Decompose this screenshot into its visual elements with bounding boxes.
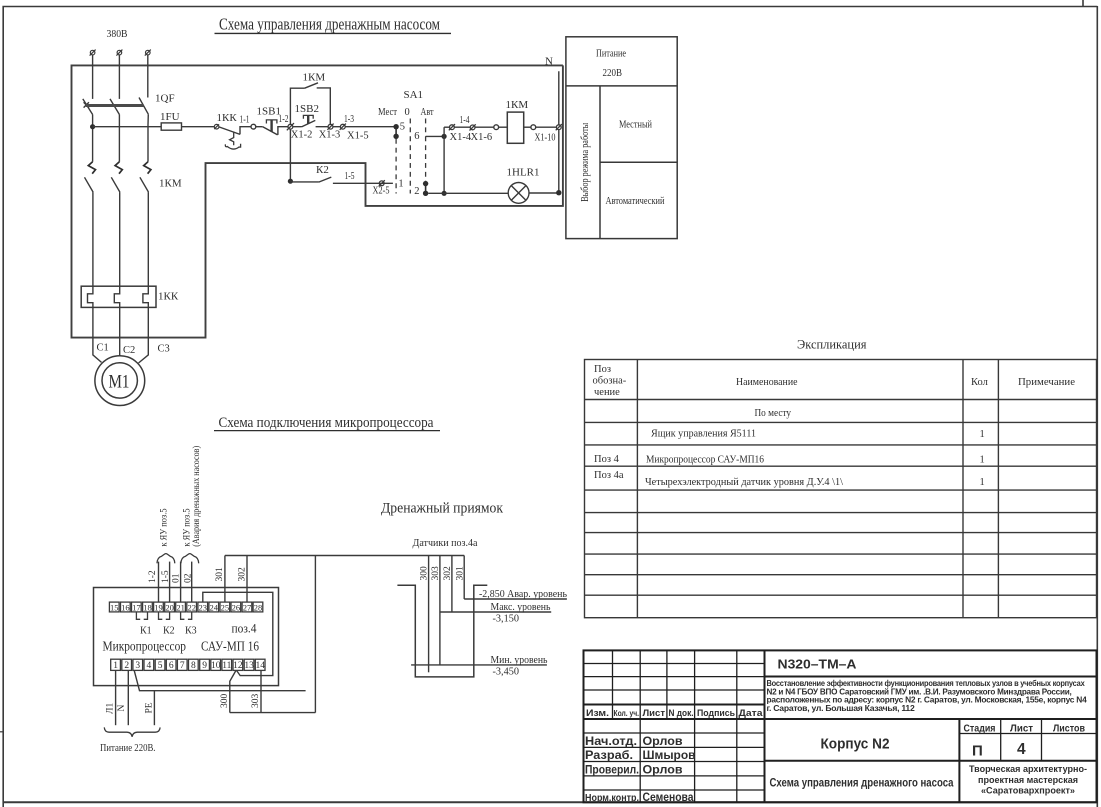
- svg-text:5: 5: [158, 661, 163, 671]
- coil right terminal: [531, 125, 536, 130]
- revision header row: [586, 708, 764, 718]
- signature rows: [585, 736, 696, 804]
- svg-text:Четырехэлектродный датчик уров: Четырехэлектродный датчик уровня Д.У.4 \…: [645, 477, 843, 488]
- svg-text:Творческая архитектурно-: Творческая архитектурно-: [969, 764, 1087, 775]
- svg-text:4: 4: [1017, 741, 1026, 758]
- svg-text:Наименование: Наименование: [736, 377, 798, 388]
- wire 302 (pin 27 up to harness): [246, 556, 248, 603]
- wire N loop (top bus, left drop, bottom return, cabinet outline): [72, 65, 563, 337]
- wire 1-5 (pin 20 up): [169, 562, 171, 603]
- thermal release zigzag pole1: [88, 162, 95, 174]
- title block (штамп): [584, 650, 1097, 802]
- contactor 1KM pole3 main contact: [140, 177, 149, 192]
- svg-text:1: 1: [398, 178, 403, 189]
- wire pin23 to pin12 routing: [203, 592, 273, 675]
- svg-text:-3,450: -3,450: [493, 666, 520, 678]
- svg-text:к ЯУ поз.5: к ЯУ поз.5: [160, 508, 170, 546]
- wire PE drop: [153, 691, 155, 726]
- terminal L3 top: [145, 50, 151, 56]
- wire fuse to 1KK contact: [182, 126, 215, 128]
- SA1 position line Авт (dashed): [425, 119, 427, 182]
- wire X1-5 to SA1: [345, 126, 396, 128]
- svg-text:301: 301: [455, 566, 465, 581]
- svg-text:301: 301: [215, 567, 225, 582]
- circuit breaker 1QF pole3 blade: [139, 98, 148, 115]
- terminal X2-5: [379, 180, 385, 186]
- svg-text:Питание 220В.: Питание 220В.: [100, 743, 156, 754]
- svg-text:чение: чение: [594, 387, 620, 398]
- svg-text:Х1-4: Х1-4: [450, 132, 472, 143]
- svg-text:1КК: 1КК: [158, 291, 179, 303]
- wire 300 (pin 12 down): [230, 670, 236, 712]
- wire PE from pin 3: [134, 670, 305, 690]
- svg-text:Х1-2: Х1-2: [291, 130, 313, 141]
- pushbutton 1SB2 (NO start): [293, 115, 329, 126]
- svg-text:Кол: Кол: [971, 377, 988, 388]
- svg-text:К2: К2: [316, 164, 329, 176]
- SA1 contact pair 5 (Мест): [393, 124, 398, 139]
- wire phase L2 lower: [119, 192, 121, 286]
- wire control line from node A to fuse: [93, 126, 162, 128]
- svg-text:20: 20: [165, 602, 174, 612]
- svg-text:4: 4: [147, 661, 152, 671]
- svg-text:проектная мастерская: проектная мастерская: [978, 775, 1078, 786]
- svg-text:Лист: Лист: [1010, 723, 1033, 734]
- svg-text:N: N: [545, 55, 553, 67]
- svg-text:220В: 220В: [603, 68, 623, 79]
- svg-text:0: 0: [405, 107, 410, 118]
- relay output K2 bridge (pins 19-20): [159, 612, 170, 619]
- svg-text:Х1-10: Х1-10: [535, 132, 556, 143]
- svg-text:Дренажный приямок: Дренажный приямок: [381, 501, 504, 517]
- svg-text:16: 16: [121, 602, 130, 612]
- svg-text:САУ-МП 16: САУ-МП 16: [201, 639, 259, 654]
- svg-text:8: 8: [191, 661, 196, 671]
- svg-text:01: 01: [172, 573, 182, 583]
- svg-text:(Авария дренажных насосов): (Авария дренажных насосов): [191, 446, 202, 547]
- svg-text:27: 27: [243, 602, 252, 612]
- svg-text:К1: К1: [140, 626, 152, 637]
- svg-text:Х1-5: Х1-5: [347, 131, 369, 142]
- wire 1-2 (pin 19 up): [158, 562, 160, 603]
- svg-text:26: 26: [232, 602, 241, 612]
- terminal L1 top: [90, 50, 96, 56]
- svg-text:302: 302: [238, 567, 248, 582]
- svg-text:Местный: Местный: [619, 120, 652, 131]
- contactor 1KM pole1 main contact: [85, 177, 94, 192]
- svg-text:По месту: По месту: [755, 408, 792, 419]
- wire to X1-4: [444, 126, 450, 128]
- wire L1 supply (pin 1 down): [115, 670, 117, 725]
- svg-text:6: 6: [414, 131, 419, 142]
- wire motor lead C3: [139, 307, 149, 363]
- svg-text:23: 23: [199, 602, 208, 612]
- svg-text:1: 1: [980, 429, 985, 440]
- svg-text:22: 22: [187, 602, 196, 612]
- svg-text:1-4: 1-4: [460, 115, 471, 126]
- 1KK heater element pole2: [114, 286, 119, 307]
- svg-text:19: 19: [154, 602, 163, 612]
- svg-text:-3,150: -3,150: [493, 613, 520, 625]
- svg-text:Листов: Листов: [1053, 723, 1085, 734]
- relay contact K2 branch: [288, 129, 393, 184]
- SA1 position line 0 (dashed): [409, 119, 411, 194]
- svg-text:Выбор режима работы: Выбор режима работы: [580, 123, 591, 202]
- 1KK heater element pole1: [88, 286, 93, 307]
- wire N supply (pin 2 down): [127, 670, 129, 725]
- svg-text:Х1-3: Х1-3: [319, 130, 341, 141]
- svg-text:N док.: N док.: [669, 708, 694, 718]
- SA1 contact pair 1-2 (Авт): [423, 181, 428, 196]
- relay output K1 bridge (pins 17-18): [136, 612, 147, 619]
- svg-text:Авт: Авт: [421, 107, 434, 118]
- svg-text:6: 6: [169, 661, 174, 671]
- svg-text:Разраб.: Разраб.: [585, 750, 633, 762]
- svg-text:Семенова: Семенова: [643, 792, 695, 804]
- svg-text:1SB1: 1SB1: [257, 106, 281, 118]
- svg-text:Микропроцессор САУ-МП16: Микропроцессор САУ-МП16: [646, 455, 764, 466]
- terminal L2 top: [116, 50, 122, 56]
- drainage pit walls: [397, 585, 487, 677]
- svg-text:М1: М1: [109, 371, 130, 392]
- wire lamp line: [428, 192, 559, 194]
- svg-text:18: 18: [143, 602, 152, 612]
- wire phase L1 lower: [92, 192, 94, 286]
- svg-text:25: 25: [221, 602, 230, 612]
- coil 1KM: [507, 112, 523, 143]
- svg-text:1HLR1: 1HLR1: [507, 167, 540, 179]
- svg-text:Дата: Дата: [739, 708, 764, 718]
- pushbutton 1SB1 (NC stop): [263, 120, 289, 135]
- svg-text:г. Саратов, ул. Большая Казачь: г. Саратов, ул. Большая Казачья, 112: [767, 703, 916, 713]
- terminal X1-2: [287, 123, 294, 130]
- svg-text:10: 10: [211, 661, 221, 671]
- electrode 302: [451, 556, 453, 613]
- svg-text:к ЯУ поз.5: к ЯУ поз.5: [183, 508, 193, 546]
- svg-text:5: 5: [400, 121, 405, 132]
- svg-text:N320–ТМ–А: N320–ТМ–А: [778, 657, 858, 672]
- terminal X1-10: [556, 124, 562, 130]
- svg-text:1-5: 1-5: [161, 570, 171, 583]
- svg-text:1SB2: 1SB2: [295, 103, 319, 115]
- svg-text:N: N: [117, 705, 127, 712]
- svg-text:поз.4: поз.4: [232, 622, 258, 636]
- svg-text:28: 28: [254, 602, 263, 612]
- svg-text:Орлов: Орлов: [643, 736, 683, 748]
- thermal release zigzag pole3: [144, 162, 151, 174]
- circuit breaker 1QF pole2 blade: [110, 99, 119, 115]
- svg-text:1КМ: 1КМ: [159, 178, 182, 190]
- svg-text:15: 15: [110, 602, 119, 612]
- wire to X1-10: [536, 126, 557, 128]
- svg-text:Мест: Мест: [378, 107, 397, 118]
- svg-text:К2: К2: [163, 626, 175, 637]
- wire harness riser: [314, 556, 316, 713]
- svg-text:Автоматический: Автоматический: [606, 196, 665, 207]
- wire N drop: [558, 71, 560, 192]
- wire phase L3 middle: [147, 114, 149, 162]
- svg-text:3: 3: [135, 661, 140, 671]
- wire phase L3 lower: [147, 192, 149, 286]
- organization: [969, 764, 1087, 797]
- svg-text:1-2: 1-2: [148, 570, 158, 583]
- svg-text:Поз 4: Поз 4: [594, 454, 620, 465]
- coil left terminal: [494, 125, 499, 130]
- wire X1-6 to coil terminal: [475, 126, 494, 128]
- wire 1-4: [454, 126, 470, 128]
- svg-text:1КМ: 1КМ: [506, 99, 529, 111]
- electrode 303: [439, 556, 441, 666]
- svg-text:«Саратовархпроект»: «Саратовархпроект»: [981, 785, 1075, 796]
- brace to ЯУ поз.5 (авария): [181, 554, 199, 564]
- svg-text:Микропроцессор: Микропроцессор: [103, 639, 187, 654]
- microprocessor U: САУ-МП16 box: [94, 588, 279, 686]
- svg-text:1КК: 1КК: [217, 112, 238, 124]
- wire motor lead C1: [93, 307, 102, 362]
- electrode 301: [463, 556, 465, 600]
- svg-text:1QF: 1QF: [155, 93, 175, 105]
- svg-text:Подпись: Подпись: [697, 708, 735, 718]
- terminal X1-3: [327, 124, 333, 130]
- svg-text:Лист: Лист: [643, 708, 666, 718]
- wire 02 (pin 22 up): [191, 562, 193, 603]
- circuit breaker 1QF pole1 blade with X mark: [83, 99, 93, 115]
- svg-text:Кол. уч.: Кол. уч.: [614, 709, 640, 718]
- wire to coil: [499, 126, 508, 128]
- svg-text:обозна-: обозна-: [593, 376, 627, 387]
- electrode 300: [428, 556, 430, 673]
- svg-text:1-5: 1-5: [345, 171, 355, 182]
- svg-text:11: 11: [222, 661, 231, 671]
- svg-text:Л1: Л1: [106, 703, 116, 714]
- junction dot at X1-4 branch: [442, 134, 447, 139]
- svg-text:Питание: Питание: [596, 49, 626, 60]
- svg-text:303: 303: [251, 694, 261, 709]
- svg-text:Ящик управления Я5111: Ящик управления Я5111: [651, 429, 756, 440]
- svg-text:Шмыров: Шмыров: [643, 750, 696, 762]
- svg-text:1: 1: [113, 661, 118, 671]
- fuse 1FU: [161, 123, 181, 130]
- wire vertical junction riser: [443, 127, 445, 193]
- wire contact 6 to junction: [426, 135, 445, 137]
- svg-text:02: 02: [184, 573, 194, 583]
- 1KK heater element pole3: [143, 286, 148, 307]
- svg-text:12: 12: [233, 661, 243, 671]
- svg-text:Примечание: Примечание: [1018, 377, 1075, 388]
- wire 1-1 to 1SB1: [256, 126, 263, 128]
- contactor 1KM pole2 main contact: [111, 177, 120, 192]
- junction dot on lamp line: [442, 191, 447, 196]
- wire phase L2 middle: [118, 115, 120, 162]
- lamp 1HLR1: [508, 183, 529, 204]
- title: Схема подключения микропроцессора: [214, 415, 440, 431]
- svg-text:С1: С1: [97, 342, 109, 353]
- svg-text:Схема подключения микропроцесс: Схема подключения микропроцессора: [219, 415, 434, 431]
- title: Схема управления дренажным насосом: [215, 15, 452, 34]
- level line -2,850 авар: [464, 598, 567, 600]
- svg-text:Датчики поз.4а: Датчики поз.4а: [413, 537, 478, 549]
- svg-text:С2: С2: [123, 345, 135, 356]
- terminal X1-5: [340, 124, 346, 130]
- svg-text:Нач.отд.: Нач.отд.: [585, 736, 637, 748]
- node 1-1 terminal: [251, 124, 256, 129]
- svg-text:2: 2: [414, 186, 419, 197]
- thermal relay 1KK box: [81, 286, 156, 307]
- svg-text:С3: С3: [158, 344, 170, 355]
- wire 01 (pin 21 up): [180, 562, 182, 603]
- wire 301 (pin 25 up to harness): [224, 556, 226, 603]
- svg-text:Мин. уровень: Мин. уровень: [491, 654, 548, 666]
- brace Питание 220В: [104, 727, 160, 736]
- wire 1-3: [333, 126, 341, 128]
- svg-text:302: 302: [443, 566, 453, 581]
- svg-text:РЕ: РЕ: [145, 702, 155, 713]
- wire coil to terminal: [524, 126, 531, 128]
- wire 303 (pin 14 down): [260, 670, 262, 712]
- level line мин: [411, 664, 547, 666]
- svg-text:380В: 380В: [107, 28, 128, 40]
- svg-text:1-1: 1-1: [240, 115, 250, 126]
- svg-text:Схема управления дренажным нас: Схема управления дренажным насосом: [219, 15, 440, 34]
- terminal X1-4: [449, 124, 455, 130]
- mode selection table: [566, 37, 677, 239]
- 1KK NC contact blade with thermal actuator: [219, 127, 251, 149]
- svg-text:303: 303: [431, 566, 441, 581]
- SA1 position line Мест (dashed): [395, 139, 397, 194]
- wire motor lead C2: [119, 307, 121, 356]
- svg-text:300: 300: [420, 566, 430, 581]
- svg-text:П: П: [972, 743, 983, 760]
- svg-text:Орлов: Орлов: [643, 765, 683, 777]
- brace to ЯУ поз.5: [157, 554, 175, 564]
- terminal strip bottom pins 1-14: [111, 659, 265, 670]
- svg-text:Норм.контр.: Норм.контр.: [585, 792, 639, 804]
- svg-text:SA1: SA1: [404, 89, 424, 101]
- svg-text:1: 1: [980, 455, 985, 466]
- svg-text:13: 13: [244, 661, 254, 671]
- svg-text:Стадия: Стадия: [964, 723, 996, 734]
- thermal release zigzag pole2: [115, 162, 122, 174]
- svg-text:1FU: 1FU: [160, 111, 180, 123]
- wire phase L3 upper: [147, 55, 149, 98]
- svg-text:17: 17: [132, 602, 141, 612]
- sensor harness bus: [225, 555, 464, 557]
- svg-text:Проверил.: Проверил.: [585, 765, 639, 777]
- svg-text:2: 2: [124, 661, 129, 671]
- wire phase L1 middle: [92, 115, 94, 162]
- aux contact 1KM (self-hold): [290, 83, 330, 125]
- svg-text:Макс. уровень: Макс. уровень: [491, 601, 551, 613]
- svg-text:К3: К3: [185, 626, 197, 637]
- wire phase L2 upper: [118, 55, 120, 99]
- relay output K3 bridge (pins 21-22): [181, 612, 192, 619]
- svg-text:Поз 4а: Поз 4а: [594, 470, 624, 481]
- svg-text:Схема управления дренажного на: Схема управления дренажного насоса: [770, 776, 954, 790]
- svg-text:14: 14: [255, 661, 265, 671]
- terminal of 1KK contact: [214, 124, 219, 129]
- label Питание 220В: [596, 49, 626, 80]
- wire phase L1 upper: [92, 55, 94, 99]
- svg-text:Х1-6: Х1-6: [471, 132, 493, 143]
- junction dot lamp to N: [556, 190, 561, 195]
- svg-text:Изм.: Изм.: [586, 708, 609, 718]
- svg-text:7: 7: [180, 661, 185, 671]
- svg-text:9: 9: [202, 661, 207, 671]
- svg-text:Поз: Поз: [594, 364, 611, 375]
- svg-text:21: 21: [176, 602, 185, 612]
- terminal strip top pins 15-28: [109, 602, 262, 612]
- project description: [767, 678, 1088, 713]
- svg-text:24: 24: [210, 602, 219, 612]
- svg-text:300: 300: [220, 694, 230, 709]
- svg-text:1КМ: 1КМ: [303, 71, 326, 83]
- svg-text:1-2: 1-2: [279, 114, 289, 125]
- 1QF tie bar: [86, 104, 144, 107]
- svg-text:Х2-5: Х2-5: [373, 185, 390, 196]
- svg-text:1: 1: [980, 477, 985, 488]
- motor M1: [95, 356, 145, 406]
- level line макс: [440, 611, 551, 613]
- wire 300/303 run to harness riser: [230, 712, 316, 714]
- svg-text:-2,850 Авар. уровень: -2,850 Авар. уровень: [479, 588, 567, 600]
- junction node A (control tap): [90, 124, 95, 129]
- terminal X1-6: [470, 124, 476, 130]
- svg-text:Экспликация: Экспликация: [797, 338, 867, 352]
- svg-text:Корпус N2: Корпус N2: [821, 736, 890, 753]
